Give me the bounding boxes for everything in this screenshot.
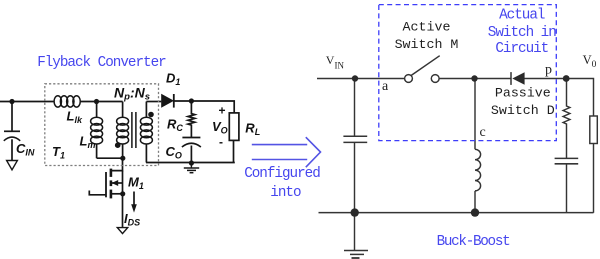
svg-text:Buck-Boost: Buck-Boost <box>437 234 511 250</box>
svg-text:Np:Ns: Np:Ns <box>114 85 150 103</box>
svg-text:Actual: Actual <box>499 8 545 24</box>
svg-text:Switch D: Switch D <box>491 103 555 118</box>
svg-text:T1: T1 <box>52 144 65 161</box>
svg-text:c: c <box>480 125 486 140</box>
svg-text:M1: M1 <box>128 175 144 192</box>
svg-text:D1: D1 <box>166 71 180 88</box>
svg-text:RC: RC <box>167 117 183 134</box>
svg-text:Switch in: Switch in <box>488 25 556 41</box>
svg-text:Passive: Passive <box>495 86 551 101</box>
svg-text:Configured: Configured <box>244 166 320 182</box>
svg-text:CIN: CIN <box>16 141 35 158</box>
svg-text:Active: Active <box>403 20 451 35</box>
svg-text:p: p <box>545 63 552 78</box>
svg-text:CO: CO <box>166 144 182 161</box>
svg-text:+: + <box>219 104 226 118</box>
svg-text:Switch M: Switch M <box>395 37 459 52</box>
svg-text:into: into <box>270 185 301 201</box>
svg-text:V0: V0 <box>583 53 597 70</box>
svg-text:Flyback Converter: Flyback Converter <box>37 55 166 71</box>
svg-text:VIN: VIN <box>326 53 345 71</box>
svg-text:VO: VO <box>212 119 228 136</box>
svg-text:Llk: Llk <box>67 108 83 125</box>
svg-text:Circuit: Circuit <box>495 41 548 57</box>
svg-text:IDS: IDS <box>124 211 140 228</box>
svg-text:RL: RL <box>245 120 260 137</box>
svg-text:a: a <box>382 79 389 94</box>
svg-text:-: - <box>219 135 223 149</box>
